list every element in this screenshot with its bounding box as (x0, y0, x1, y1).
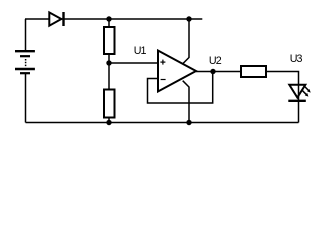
op-amp U1 (158, 51, 196, 92)
wire: LED cathode down to bottom rail (298, 101, 300, 123)
battery (15, 51, 35, 73)
wire: left rail from top rail down to battery + (25, 19, 27, 51)
diode (series, top rail) (49, 12, 63, 26)
wire: feedback loop (output down, left, up to - input) (148, 72, 213, 104)
label U2 (series resistor) (209, 55, 222, 67)
wire: divider vertical (top rail to mid node) (108, 19, 110, 63)
wire: divider vertical (mid node to bottom rail) (108, 63, 110, 123)
LED U3 (288, 85, 310, 101)
wire: bottom rail (ground return) (26, 122, 299, 124)
svg-text:U3: U3 (290, 53, 303, 65)
svg-text:U2: U2 (209, 55, 222, 67)
node: divider mid tap (106, 60, 111, 65)
label U1 (op-amp) (134, 45, 147, 57)
junction: bottom rail / divider (106, 120, 111, 125)
junction: top rail / op-amp V+ pin (186, 16, 191, 21)
resistor R-lower (divider bottom) (104, 90, 115, 118)
wire: mid tap to op-amp + input (109, 62, 158, 64)
resistor R-upper (divider top) (104, 27, 115, 54)
wire: op-amp V- power pin (bottom edge to rail, 45-deg jog) (183, 81, 189, 123)
svg-text:U1: U1 (134, 45, 147, 57)
junction: output / feedback node (210, 69, 215, 74)
junction: bottom rail / op-amp V- pin (186, 120, 191, 125)
wire: op-amp output to series resistor (196, 71, 241, 73)
resistor U2 (series output) (241, 66, 266, 77)
wire: battery - down to bottom rail (25, 74, 27, 123)
wire: op-amp V+ power pin (rail to top edge, 45-deg jog) (183, 19, 189, 64)
wire: top rail (V+) (25, 18, 202, 20)
wire: resistor to LED top (266, 72, 299, 85)
junction: top rail / divider (106, 16, 111, 21)
label U3 (LED) (290, 53, 303, 65)
